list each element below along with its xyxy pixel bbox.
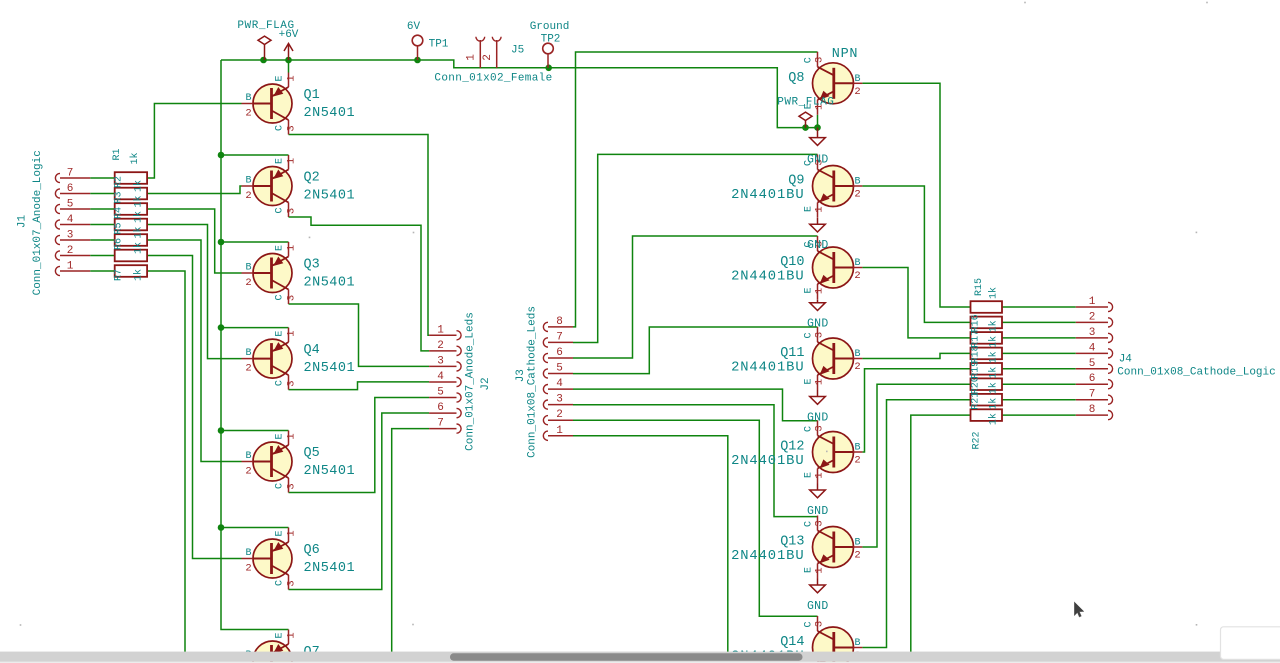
wire Q2 collector to J2 pin 2 — [289, 217, 430, 351]
svg-text:1k: 1k — [988, 413, 1000, 425]
svg-text:5: 5 — [1089, 358, 1096, 370]
svg-text:1k: 1k — [988, 351, 1000, 363]
wire Q13 base to R20 — [862, 384, 970, 547]
scrollbar thumb — [450, 653, 803, 660]
wire Q6 emitter to rail — [221, 527, 289, 529]
resistor R16 1k — [971, 317, 1003, 329]
svg-text:7: 7 — [67, 168, 74, 180]
svg-text:Q1: Q1 — [304, 88, 320, 103]
ground symbol below Q13 — [810, 579, 826, 593]
svg-text:2: 2 — [854, 550, 860, 562]
svg-text:R19: R19 — [971, 361, 982, 379]
wire Q1 emitter to rail — [288, 60, 290, 73]
transistor Q3 (2N5401 PNP) — [242, 242, 293, 304]
svg-text:2: 2 — [245, 466, 251, 478]
test point TP2 — [543, 43, 554, 68]
resistor R18 1k — [971, 348, 1003, 360]
wire Q8 emitter to junction — [817, 115, 819, 128]
svg-text:E: E — [275, 75, 286, 81]
svg-text:R5: R5 — [114, 222, 125, 234]
junction Q8 emitter / GND — [814, 124, 821, 131]
svg-text:Q5: Q5 — [304, 446, 320, 461]
junction +6V / Q1 emitter — [285, 57, 292, 64]
wire R1 to Q1 base — [147, 104, 241, 179]
wire R17 to J4 pin 3 — [1002, 337, 1076, 339]
svg-text:E: E — [275, 331, 286, 337]
transistor Q11 (2N4401BU NPN) — [813, 327, 863, 390]
svg-text:GND: GND — [807, 153, 829, 166]
svg-text:1: 1 — [286, 158, 298, 164]
svg-text:1: 1 — [286, 632, 298, 638]
ground symbol below Q10 — [810, 299, 826, 310]
svg-text:1: 1 — [1089, 296, 1096, 308]
svg-text:6: 6 — [556, 347, 563, 359]
svg-text:R18: R18 — [971, 345, 982, 363]
wire J1 pin 1 to resistor — [90, 270, 115, 272]
wire J3 pin 8 to Q8 collector — [573, 52, 818, 327]
wire J3 pin 1 going down — [573, 436, 728, 652]
svg-text:1: 1 — [814, 379, 826, 385]
wire +6V vertical rail to Q7 emitter — [221, 60, 289, 630]
wire Q12 base to R19 — [862, 369, 970, 452]
svg-text:1k: 1k — [988, 320, 1000, 332]
transistor Q4 (2N5401 PNP) — [242, 328, 293, 390]
svg-text:7: 7 — [437, 418, 444, 430]
svg-text:E: E — [275, 530, 286, 536]
svg-text:2: 2 — [854, 361, 860, 373]
wire Q1 collector to J2 pin 1 — [289, 135, 430, 336]
svg-text:2: 2 — [437, 340, 444, 352]
wire Q4 emitter to rail — [221, 327, 289, 329]
svg-text:4: 4 — [556, 378, 563, 390]
svg-text:3: 3 — [814, 520, 826, 526]
transistor Q7 (2N5401 PNP) — [242, 630, 293, 663]
svg-text:GND: GND — [807, 239, 829, 252]
svg-text:Q4: Q4 — [304, 343, 320, 358]
resistor R19 1k — [971, 363, 1003, 375]
svg-text:C: C — [275, 580, 286, 586]
svg-text:2: 2 — [67, 245, 74, 257]
svg-text:4: 4 — [67, 214, 74, 226]
svg-text:R17: R17 — [971, 330, 982, 348]
wire R2 to Q2 base — [147, 186, 241, 194]
svg-text:GND: GND — [807, 505, 829, 518]
svg-text:2: 2 — [245, 108, 251, 120]
svg-text:Q12: Q12 — [780, 440, 804, 455]
svg-text:2N5401: 2N5401 — [304, 276, 356, 291]
svg-text:2: 2 — [1089, 311, 1096, 323]
svg-text:2: 2 — [245, 563, 251, 575]
svg-text:2: 2 — [854, 86, 860, 98]
ground symbol below Q11 — [810, 390, 826, 404]
wire 6V rail from PWR_FLAG to ground run into Q8 emitter junction — [221, 60, 818, 128]
svg-text:C: C — [275, 294, 286, 300]
svg-text:1k: 1k — [988, 367, 1000, 379]
svg-text:2N4401BU: 2N4401BU — [731, 549, 804, 564]
svg-text:1: 1 — [814, 288, 826, 294]
connector J1 Conn_01x07_Anode_Logic — [55, 173, 90, 275]
svg-text:R7: R7 — [114, 269, 125, 281]
svg-text:2: 2 — [245, 363, 251, 375]
svg-text:6: 6 — [1089, 373, 1096, 385]
junction Q3 emitter on rail — [218, 239, 225, 246]
wire J1 pin 7 to resistor — [90, 177, 115, 179]
svg-text:3: 3 — [67, 230, 74, 242]
svg-text:1: 1 — [286, 530, 298, 536]
svg-text:2: 2 — [245, 190, 251, 202]
svg-text:1k: 1k — [133, 269, 145, 281]
svg-text:1k: 1k — [988, 382, 1000, 394]
svg-text:1k: 1k — [133, 242, 145, 254]
svg-text:B: B — [854, 258, 860, 269]
svg-text:Conn_01x02_Female: Conn_01x02_Female — [434, 73, 552, 85]
resistor R4 1k — [115, 219, 147, 231]
svg-text:3: 3 — [814, 332, 826, 338]
svg-text:2N5401: 2N5401 — [304, 189, 356, 204]
svg-text:R20: R20 — [971, 376, 982, 394]
wire Q5 collector to J2 pin 5 — [289, 398, 430, 493]
resistor R1 1k — [115, 172, 147, 184]
svg-text:1: 1 — [286, 433, 298, 439]
svg-text:J1: J1 — [17, 215, 29, 229]
transistor Q9 (2N4401BU NPN) — [813, 155, 863, 218]
svg-text:3: 3 — [286, 380, 298, 386]
connector J4 Conn_01x08_Cathode_Logic — [1076, 302, 1113, 419]
svg-text:1: 1 — [67, 261, 74, 273]
resistor R3 1k — [115, 203, 147, 215]
svg-text:Conn_01x08_Cathode_Logic: Conn_01x08_Cathode_Logic — [1117, 367, 1275, 379]
resistor R22 1k — [971, 409, 1003, 421]
ground symbol below Q12 — [810, 484, 826, 498]
wire R16 to J4 pin 2 — [1002, 321, 1076, 323]
svg-text:C: C — [275, 483, 286, 489]
transistor Q6 (2N5401 PNP) — [242, 528, 293, 590]
svg-text:1: 1 — [286, 330, 298, 336]
svg-text:2: 2 — [482, 54, 494, 61]
junction Q5 emitter on rail — [218, 427, 225, 434]
svg-text:2N4401BU: 2N4401BU — [731, 360, 804, 375]
wire Q3 emitter to rail — [221, 241, 289, 243]
svg-text:4: 4 — [437, 371, 444, 383]
svg-text:Conn_01x08_Cathode_Leds: Conn_01x08_Cathode_Leds — [527, 306, 539, 458]
svg-text:1k: 1k — [133, 195, 145, 207]
svg-text:1k: 1k — [988, 398, 1000, 410]
svg-text:4: 4 — [1089, 342, 1096, 354]
svg-text:3: 3 — [814, 57, 826, 63]
svg-text:2N5401: 2N5401 — [304, 361, 356, 376]
svg-text:B: B — [245, 451, 251, 462]
resistor R2 1k — [115, 188, 147, 200]
svg-text:2N4401BU: 2N4401BU — [731, 188, 804, 203]
svg-text:6: 6 — [67, 183, 74, 195]
wire J3 pin 2 to Q14 collector — [573, 420, 818, 616]
wire Q6 collector to J2 pin 6 — [289, 413, 430, 590]
wire Q11 base to R18 — [862, 353, 970, 358]
svg-text:R6: R6 — [114, 238, 125, 250]
transistor Q13 (2N4401BU NPN) — [813, 516, 863, 579]
wire J3 pin 3 to Q13 collector — [573, 405, 818, 517]
wire J3 pin 4 to Q12 collector — [573, 389, 818, 421]
svg-text:1k: 1k — [133, 180, 145, 192]
wire R19 to J4 pin 5 — [1002, 368, 1076, 370]
svg-text:+6V: +6V — [279, 29, 299, 41]
transistor Q12 (2N4401BU NPN) — [813, 421, 863, 484]
junction Q6 emitter on rail — [218, 524, 225, 531]
svg-text:2: 2 — [854, 270, 860, 282]
svg-text:B: B — [245, 548, 251, 559]
svg-text:2N4401BU: 2N4401BU — [731, 269, 804, 284]
junction Q4 emitter on rail — [218, 324, 225, 331]
svg-text:B: B — [854, 177, 860, 188]
svg-text:2N5401: 2N5401 — [304, 464, 356, 479]
svg-text:E: E — [275, 158, 286, 164]
resistor R7 1k — [115, 265, 147, 277]
svg-text:B: B — [854, 638, 860, 649]
svg-text:Conn_01x07_Anode_Logic: Conn_01x07_Anode_Logic — [32, 150, 44, 295]
svg-text:2N5401: 2N5401 — [304, 561, 356, 576]
connector J5 Conn_01x02_Female — [476, 37, 501, 68]
horizontal scrollbar track — [0, 652, 1280, 662]
wire Q2 emitter to rail — [221, 154, 289, 156]
svg-text:Q14: Q14 — [780, 635, 804, 650]
resistor R15 1k — [971, 301, 1003, 313]
wire R3 to Q3 base — [147, 209, 241, 273]
power flag PWR_FLAG on 6V rail — [258, 36, 271, 60]
svg-text:7: 7 — [1089, 389, 1096, 401]
ground symbol below Q9 — [810, 218, 826, 232]
wire R4 to Q4 base — [147, 225, 241, 359]
svg-text:6V: 6V — [407, 21, 421, 33]
svg-text:J5: J5 — [511, 45, 524, 57]
wire J1 pin 6 to resistor — [90, 193, 115, 195]
svg-text:3: 3 — [556, 394, 563, 406]
svg-text:TP1: TP1 — [429, 39, 449, 51]
wire J1 pin 3 to resistor — [90, 239, 115, 241]
wire R5 to Q5 base — [147, 240, 241, 462]
svg-text:J2: J2 — [480, 377, 492, 390]
svg-text:3: 3 — [814, 621, 826, 627]
transistor Q10 (2N4401BU NPN) — [813, 236, 863, 299]
svg-text:1k: 1k — [988, 336, 1000, 348]
svg-text:2N4401BU: 2N4401BU — [731, 454, 804, 469]
svg-text:Q8: Q8 — [788, 71, 804, 86]
svg-text:PWR_FLAG: PWR_FLAG — [777, 97, 834, 109]
svg-text:GND: GND — [807, 411, 829, 424]
svg-text:Q6: Q6 — [304, 543, 320, 558]
transistor Q2 (2N5401 PNP) — [242, 155, 293, 217]
resistor R5 1k — [115, 234, 147, 246]
svg-text:1k: 1k — [988, 287, 1000, 299]
wire Q4 collector to J2 pin 4 — [289, 382, 430, 390]
svg-text:1k: 1k — [129, 152, 141, 164]
resistor R20 1k — [971, 378, 1003, 390]
svg-text:R15: R15 — [974, 278, 985, 296]
svg-text:E: E — [275, 245, 286, 251]
svg-text:C: C — [275, 125, 286, 131]
connector J3 Conn_01x08_Cathode_Leds — [543, 322, 573, 440]
svg-text:1: 1 — [556, 425, 563, 437]
wire J1 pin 2 to resistor — [90, 255, 115, 257]
svg-text:Conn_01x07_Anode_Leds: Conn_01x07_Anode_Leds — [465, 312, 477, 451]
svg-text:6: 6 — [437, 402, 444, 414]
svg-text:1k: 1k — [133, 211, 145, 223]
svg-text:B: B — [245, 348, 251, 359]
transistor Q8 (2N4401BU NPN) — [813, 52, 863, 115]
wire J1 pin 5 to resistor — [90, 208, 115, 210]
svg-text:R3: R3 — [114, 191, 125, 203]
svg-text:TP2: TP2 — [541, 34, 561, 46]
svg-text:3: 3 — [437, 355, 444, 367]
wire Q14 base to R21 — [862, 400, 970, 648]
svg-text:3: 3 — [286, 483, 298, 489]
svg-text:B: B — [245, 263, 251, 274]
svg-text:B: B — [854, 538, 860, 549]
wire R7 to Q7 base — [147, 271, 185, 652]
junction TP1 — [414, 57, 421, 64]
svg-text:1: 1 — [286, 75, 298, 81]
svg-text:Q13: Q13 — [780, 535, 804, 550]
svg-text:B: B — [245, 93, 251, 104]
svg-text:Q9: Q9 — [788, 174, 804, 189]
svg-text:1: 1 — [814, 472, 826, 478]
svg-text:5: 5 — [556, 363, 563, 375]
svg-text:5: 5 — [67, 199, 74, 211]
power flag PWR_FLAG at Q8 emitter — [799, 112, 812, 128]
wire J1 pin 4 to resistor — [90, 224, 115, 226]
wire Q9 base to R16 — [862, 186, 970, 322]
svg-text:C: C — [275, 380, 286, 386]
svg-text:3: 3 — [286, 125, 298, 131]
svg-text:2N5401: 2N5401 — [304, 106, 356, 121]
svg-text:1: 1 — [437, 324, 444, 336]
resistor R6 1k — [115, 250, 147, 262]
svg-text:R4: R4 — [114, 207, 125, 219]
svg-text:R16: R16 — [971, 314, 982, 332]
wire Q5 emitter to rail — [221, 430, 289, 432]
svg-text:R1: R1 — [112, 148, 123, 160]
transistor Q14 (2N4401BU NPN) — [813, 616, 863, 663]
svg-text:J4: J4 — [1119, 354, 1133, 366]
svg-text:B: B — [854, 443, 860, 454]
svg-text:R2: R2 — [114, 176, 125, 188]
junction PWR_FLAG at Q8 emitter — [802, 124, 809, 131]
power symbol +6V — [284, 44, 293, 61]
svg-text:2: 2 — [245, 277, 251, 289]
test point TP1 — [412, 35, 423, 60]
junction Q2 emitter on rail — [218, 152, 225, 159]
wire J3 pin 6 to Q10 collector — [573, 236, 818, 358]
junction TP2 — [545, 65, 552, 72]
wire Q7 collector to J2 pin 7 — [392, 429, 429, 652]
transistor Q1 (2N5401 PNP) — [242, 73, 293, 135]
svg-text:R21: R21 — [971, 392, 982, 410]
wire R15 to J4 pin 1 — [1002, 306, 1076, 308]
svg-text:B: B — [854, 349, 860, 360]
svg-text:C: C — [275, 207, 286, 213]
wire R6 to Q6 base — [147, 256, 241, 559]
svg-text:J3: J3 — [515, 369, 527, 382]
svg-text:B: B — [245, 176, 251, 187]
svg-text:1: 1 — [814, 206, 826, 212]
wire R21 to J4 pin 7 — [1002, 399, 1076, 401]
svg-text:1k: 1k — [133, 226, 145, 238]
svg-text:Q3: Q3 — [304, 258, 320, 273]
wire Q3 collector to J2 pin 3 — [289, 304, 430, 366]
svg-text:R22: R22 — [971, 431, 982, 449]
mouse cursor — [1074, 602, 1084, 617]
svg-text:Q11: Q11 — [780, 346, 804, 361]
svg-text:3: 3 — [286, 208, 298, 214]
wire J3 pin 7 to Q9 collector — [573, 154, 818, 342]
floating panel corner bottom-right — [1221, 627, 1280, 660]
svg-text:3: 3 — [1089, 327, 1096, 339]
wire Q10 base to R17 — [862, 268, 970, 338]
ground symbol below Q8 — [810, 128, 826, 146]
svg-text:Q10: Q10 — [780, 255, 804, 270]
resistor R17 1k — [971, 332, 1003, 344]
wire J3 pin 5 to Q11 collector — [573, 327, 818, 374]
wire R22 to J4 pin 8 — [1002, 414, 1076, 416]
svg-text:GND: GND — [807, 318, 829, 331]
svg-text:E: E — [275, 433, 286, 439]
svg-text:Ground: Ground — [530, 21, 570, 33]
svg-text:1: 1 — [286, 245, 298, 251]
svg-text:1: 1 — [814, 567, 826, 573]
wire bottom net to R22 — [911, 415, 971, 652]
svg-text:5: 5 — [437, 387, 444, 399]
svg-text:GND: GND — [807, 600, 829, 613]
svg-text:2: 2 — [556, 409, 563, 421]
junction PWR_FLAG on 6V rail — [260, 57, 267, 64]
svg-text:7: 7 — [556, 331, 563, 343]
connector J2 Conn_01x07_Anode_Leds — [429, 331, 461, 434]
svg-text:2: 2 — [854, 455, 860, 467]
svg-text:2: 2 — [854, 189, 860, 201]
svg-text:E: E — [275, 632, 286, 638]
svg-text:3: 3 — [286, 295, 298, 301]
svg-text:3: 3 — [286, 580, 298, 586]
svg-text:B: B — [854, 74, 860, 85]
resistor R21 1k — [971, 394, 1003, 406]
svg-text:NPN: NPN — [832, 47, 858, 62]
transistor Q5 (2N5401 PNP) — [242, 431, 293, 493]
svg-text:8: 8 — [556, 316, 563, 328]
svg-text:8: 8 — [1089, 404, 1096, 416]
svg-text:3: 3 — [814, 425, 826, 431]
wire R20 to J4 pin 6 — [1002, 383, 1076, 385]
svg-text:Q2: Q2 — [304, 171, 320, 186]
wire Q8 base to R15 — [862, 83, 970, 307]
wire R18 to J4 pin 4 — [1002, 352, 1076, 354]
svg-text:1: 1 — [466, 54, 478, 61]
